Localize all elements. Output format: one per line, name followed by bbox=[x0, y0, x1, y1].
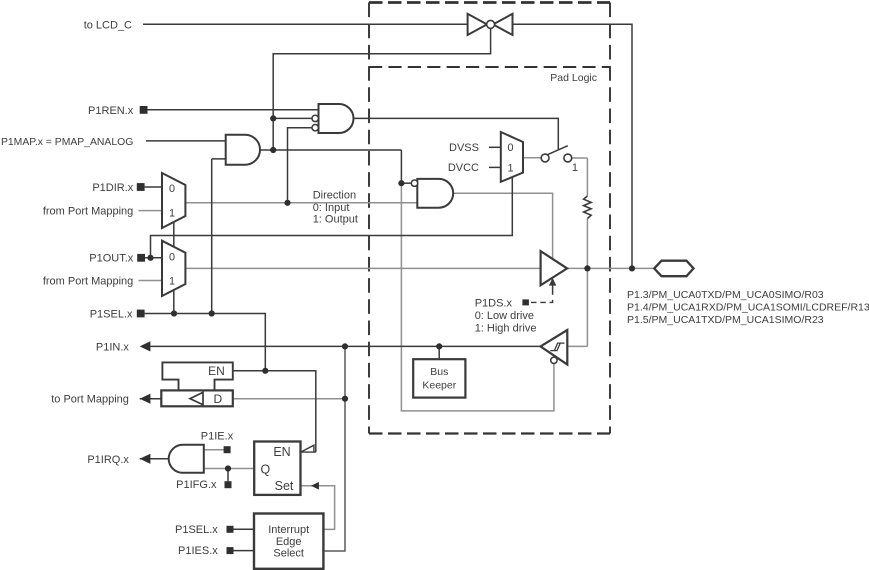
svg-text:Select: Select bbox=[273, 547, 304, 559]
svg-text:P1REN.x: P1REN.x bbox=[88, 105, 134, 117]
svg-text:Keeper: Keeper bbox=[422, 380, 456, 392]
svg-text:Edge: Edge bbox=[276, 536, 302, 548]
svg-text:P1IES.x: P1IES.x bbox=[178, 545, 218, 557]
svg-text:0: Input: 0: Input bbox=[313, 202, 350, 214]
svg-text:Bus: Bus bbox=[430, 366, 448, 378]
svg-text:Interrupt: Interrupt bbox=[268, 524, 309, 536]
svg-text:P1MAP.x = PMAP_ANALOG: P1MAP.x = PMAP_ANALOG bbox=[1, 137, 133, 148]
svg-text:to Port Mapping: to Port Mapping bbox=[51, 393, 129, 405]
svg-text:Q: Q bbox=[261, 462, 271, 476]
svg-text:Direction: Direction bbox=[313, 190, 356, 202]
svg-text:0: Low drive: 0: Low drive bbox=[475, 310, 534, 322]
svg-text:EN: EN bbox=[208, 364, 225, 378]
svg-text:0: 0 bbox=[169, 252, 175, 264]
svg-text:1: 1 bbox=[169, 276, 175, 288]
svg-text:1: 1 bbox=[572, 162, 578, 174]
svg-text:DVSS: DVSS bbox=[449, 142, 479, 154]
svg-text:from Port Mapping: from Port Mapping bbox=[43, 205, 133, 217]
svg-text:to LCD_C: to LCD_C bbox=[84, 19, 132, 31]
svg-text:0: 0 bbox=[169, 183, 175, 195]
svg-text:P1SEL.x: P1SEL.x bbox=[90, 308, 133, 320]
svg-text:1: 1 bbox=[507, 163, 513, 175]
svg-text:P1IRQ.x: P1IRQ.x bbox=[87, 454, 129, 466]
svg-text:P1IE.x: P1IE.x bbox=[201, 431, 234, 443]
svg-text:P1OUT.x: P1OUT.x bbox=[89, 253, 134, 265]
svg-text:P1.4/PM_UCA1RXD/PM_UCA1SOMI/LC: P1.4/PM_UCA1RXD/PM_UCA1SOMI/LCDREF/R13 bbox=[627, 302, 869, 314]
svg-text:0: 0 bbox=[507, 142, 513, 154]
svg-text:P1IFG.x: P1IFG.x bbox=[176, 479, 217, 491]
svg-text:P1.5/PM_UCA1TXD/PM_UCA1SIMO/R2: P1.5/PM_UCA1TXD/PM_UCA1SIMO/R23 bbox=[627, 314, 824, 326]
svg-text:1: High drive: 1: High drive bbox=[475, 322, 537, 334]
svg-text:P1SEL.x: P1SEL.x bbox=[175, 524, 218, 536]
svg-text:DVCC: DVCC bbox=[448, 162, 479, 174]
svg-text:P1DIR.x: P1DIR.x bbox=[92, 182, 133, 194]
svg-text:P1DS.x: P1DS.x bbox=[475, 297, 513, 309]
svg-text:1: Output: 1: Output bbox=[313, 214, 358, 226]
svg-text:D: D bbox=[213, 392, 222, 406]
svg-text:1: 1 bbox=[169, 208, 175, 220]
svg-text:P1IN.x: P1IN.x bbox=[96, 341, 130, 353]
svg-text:Set: Set bbox=[275, 479, 294, 493]
svg-text:EN: EN bbox=[273, 445, 290, 459]
svg-text:from Port Mapping: from Port Mapping bbox=[43, 275, 133, 287]
svg-text:Pad Logic: Pad Logic bbox=[550, 72, 597, 84]
svg-text:P1.3/PM_UCA0TXD/PM_UCA0SIMO/R0: P1.3/PM_UCA0TXD/PM_UCA0SIMO/R03 bbox=[627, 289, 824, 301]
